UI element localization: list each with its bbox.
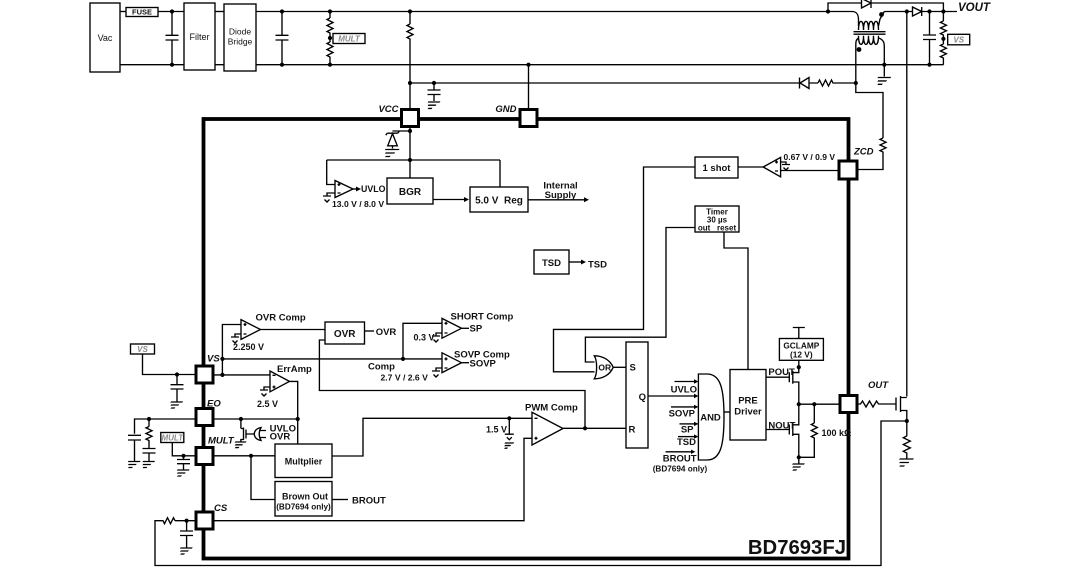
transformer T1 phase dot aux xyxy=(857,47,862,52)
node VCC cap top xyxy=(432,81,436,85)
pin EO xyxy=(196,409,213,426)
svg-text:BGR: BGR xyxy=(399,187,422,198)
node 100k tap xyxy=(812,402,816,406)
resistor divider lower (MULT sense) xyxy=(327,38,333,65)
svg-text:Supply: Supply xyxy=(545,190,577,201)
block Brown Out xyxy=(275,482,332,517)
wire regulator to internal supply arrow xyxy=(528,199,584,201)
svg-text:Brown Out: Brown Out xyxy=(282,492,328,502)
node NMOS source gnd xyxy=(797,455,801,459)
filter box xyxy=(184,3,215,70)
svg-text:POUT: POUT xyxy=(768,367,795,378)
svg-text:VCC: VCC xyxy=(378,104,398,115)
input SP-bar xyxy=(680,423,695,425)
wire MULT to brownout xyxy=(251,456,275,500)
svg-text:(BD7694 only): (BD7694 only) xyxy=(276,502,331,511)
node PMOS source xyxy=(797,365,801,369)
svg-text:2.250 V: 2.250 V xyxy=(233,342,264,352)
transformer T1 aux winding xyxy=(859,36,879,45)
svg-text:CS: CS xyxy=(214,503,228,514)
svg-text:VS: VS xyxy=(207,354,220,365)
wire FUSE to Filter (top rail) xyxy=(158,11,184,13)
diode bridge box xyxy=(224,4,256,71)
wire EO external xyxy=(135,419,197,434)
svg-text:13.0 V / 8.0 V: 13.0 V / 8.0 V xyxy=(332,199,384,209)
wire BROUT output tick xyxy=(332,499,348,501)
svg-text:OVR: OVR xyxy=(270,431,291,442)
wire GND pin riser xyxy=(528,65,530,109)
clamp 1.5V xyxy=(505,418,514,439)
transformer T1 aux left terminal xyxy=(856,38,859,83)
svg-text:0.3 V: 0.3 V xyxy=(414,333,435,343)
comparator SHORT Comp xyxy=(442,318,462,338)
transistor external NMOS xyxy=(896,396,907,421)
node X-cap bottom xyxy=(170,63,174,67)
comparator ZCD xyxy=(763,157,780,176)
reference 2.250V xyxy=(231,334,241,343)
svg-text:VOUT: VOUT xyxy=(958,2,991,14)
svg-text:BD7693FJ: BD7693FJ xyxy=(748,537,846,559)
resistor VS divider lower xyxy=(940,39,946,65)
VS net label box xyxy=(948,34,970,45)
block 5.0V Reg xyxy=(470,187,528,212)
svg-text:SHORT Comp: SHORT Comp xyxy=(451,311,514,322)
node snubber left on input rail xyxy=(826,9,830,13)
svg-text:TSD: TSD xyxy=(542,258,561,269)
VS external net label box xyxy=(131,344,155,354)
wire OVR output tick xyxy=(365,330,375,332)
svg-text:Driver: Driver xyxy=(734,407,762,418)
resistor EO comp R xyxy=(146,419,152,449)
node output cap top xyxy=(927,9,931,13)
MULT external net label box xyxy=(161,433,184,443)
transformer T1 phase dot primary xyxy=(879,12,884,17)
wire Filter to Diode Bridge bottom xyxy=(215,64,224,66)
wire VS comp line xyxy=(222,358,442,360)
node internal rail xyxy=(408,158,412,162)
ground EO cap xyxy=(124,462,140,468)
node drain rail xyxy=(905,9,909,13)
svg-text:1 shot: 1 shot xyxy=(703,163,732,174)
block Timer 30us xyxy=(695,206,739,232)
node MULT brownout tap xyxy=(249,454,253,458)
fuse F1 xyxy=(126,8,158,17)
svg-text:S: S xyxy=(630,363,636,374)
wire rail to UVLO comparator xyxy=(327,160,335,185)
transformer T1 primary left terminal xyxy=(852,12,859,27)
wire CS internal to PWM plus xyxy=(213,438,532,520)
ground zener xyxy=(381,150,399,157)
wire startup resistor to VCC pin xyxy=(409,83,411,109)
node MULT divider top xyxy=(328,9,332,13)
svg-text:100 kΩ: 100 kΩ xyxy=(822,428,852,438)
transformer T1 core xyxy=(854,32,886,35)
wire Q to AND gate xyxy=(648,395,694,397)
svg-text:AND: AND xyxy=(700,412,721,423)
wire VCC internal rail xyxy=(327,131,500,160)
wire OVR block to R xyxy=(319,340,585,428)
wire VS pin to ErrAmp xyxy=(213,374,270,376)
wire timer out to OR gate xyxy=(585,228,695,363)
transformer T1 primary winding xyxy=(859,21,879,30)
block BGR xyxy=(387,178,433,204)
capacitor MULT filter xyxy=(177,456,190,470)
ground NMOS source xyxy=(798,457,800,463)
ground EO pulldown xyxy=(232,442,246,448)
node EO pulldown tap xyxy=(239,417,243,421)
power symbol GCLAMP supply xyxy=(793,328,805,339)
block Multiplier xyxy=(275,444,332,478)
pin MULT xyxy=(196,448,213,465)
IC boundary BD7693FJ xyxy=(204,119,849,559)
ground VCC bypass xyxy=(424,102,440,108)
svg-text:Filter: Filter xyxy=(190,32,210,42)
capacitor X1 across line xyxy=(166,12,179,65)
svg-text:GND: GND xyxy=(495,104,516,115)
wire Vac to FUSE (top rail) xyxy=(120,11,126,13)
svg-text:VS: VS xyxy=(953,36,964,45)
svg-text:SP: SP xyxy=(681,424,694,435)
wire VS riser xyxy=(222,325,241,375)
pin ZCD xyxy=(839,161,857,179)
svg-text:TSD: TSD xyxy=(588,260,607,271)
svg-text:ErrAmp: ErrAmp xyxy=(277,364,312,375)
wire 1shot to OR gate xyxy=(554,167,696,372)
MULT net label box xyxy=(333,34,365,44)
node VS filter cap xyxy=(175,372,179,376)
svg-text:out reset: out reset xyxy=(698,223,737,232)
svg-text:PWM Comp: PWM Comp xyxy=(525,403,578,414)
node ErrAmp EO junction xyxy=(296,417,300,421)
svg-text:UVLO: UVLO xyxy=(671,384,697,395)
svg-text:Bridge: Bridge xyxy=(228,37,253,47)
ground VS filter xyxy=(167,402,183,408)
pin GND xyxy=(520,110,537,127)
svg-text:ZCD: ZCD xyxy=(853,146,874,157)
resistor CS sense filter xyxy=(155,421,907,566)
reference 0.3V xyxy=(432,333,442,342)
node zener jog xyxy=(408,129,412,133)
svg-text:MULT: MULT xyxy=(161,434,184,443)
diode snubber D1 xyxy=(862,0,872,8)
diode VCC aux rectifier D3 xyxy=(800,78,810,89)
gate OR xyxy=(594,356,613,379)
wire UVLO output arrow xyxy=(353,188,356,190)
comparator ErrAmp xyxy=(270,371,290,392)
reference 2.5V xyxy=(260,387,270,396)
node VCC feed resistor top xyxy=(408,9,412,13)
svg-text:EO: EO xyxy=(207,399,221,410)
node R wire OVR join xyxy=(583,426,587,430)
wire output diode span xyxy=(884,11,957,13)
wire MULT internal xyxy=(213,455,275,457)
transistor POUT PMOS xyxy=(766,367,799,404)
svg-text:SOVP: SOVP xyxy=(669,409,696,420)
node bulk cap bottom xyxy=(280,63,284,67)
reference 0.67V/0.9V xyxy=(781,162,790,170)
wire rail to BGR xyxy=(409,160,411,178)
svg-text:VS: VS xyxy=(137,345,148,354)
svg-text:Multplier: Multplier xyxy=(285,456,323,466)
node source sense xyxy=(905,419,909,423)
pin CS xyxy=(196,512,213,529)
svg-text:BROUT: BROUT xyxy=(663,453,697,464)
wire output node to OUT pin xyxy=(799,403,840,405)
wire rail to regulator xyxy=(499,160,501,187)
svg-text:SP: SP xyxy=(470,324,483,335)
wire DC bottom rail xyxy=(256,64,943,66)
ground CS filter xyxy=(177,548,193,554)
node EO comp junction xyxy=(147,417,151,421)
node aux return on rail xyxy=(882,63,886,67)
node output cap bottom xyxy=(927,63,931,67)
transformer T1 aux right terminal xyxy=(878,38,884,65)
input TSD-bar xyxy=(678,436,694,438)
wire ZCD pin to comparator xyxy=(781,170,839,172)
block TSD xyxy=(534,250,569,274)
svg-text:Q: Q xyxy=(639,392,646,403)
svg-text:0.67 V / 0.9 V: 0.67 V / 0.9 V xyxy=(784,152,836,162)
ground source sense xyxy=(895,459,913,466)
svg-text:OR: OR xyxy=(598,362,611,372)
capacitor EO comp C (series) xyxy=(143,449,156,462)
svg-text:5.0 V Reg: 5.0 V Reg xyxy=(475,195,523,206)
resistor OUT gate xyxy=(857,401,896,407)
transformer T1 primary right terminal xyxy=(879,12,885,27)
node VCC aux junction xyxy=(408,81,412,85)
input UVLO-bar xyxy=(675,381,695,383)
node SHORT branch xyxy=(401,357,405,361)
block PRE driver xyxy=(730,370,766,441)
gate UVLO/OVR or xyxy=(254,428,261,441)
ground EO series cap xyxy=(139,462,155,468)
diode output rectifier D2 xyxy=(913,7,922,16)
svg-text:OUT: OUT xyxy=(868,380,889,391)
wire snubber loop xyxy=(828,3,943,12)
wire Filter to Diode Bridge top xyxy=(215,11,224,13)
input SOVP-bar xyxy=(671,406,694,408)
reference 2.7V/2.6V xyxy=(432,368,442,377)
comparator OVR Comp xyxy=(241,320,261,340)
svg-text:TSD: TSD xyxy=(677,437,696,448)
node VS branch lower xyxy=(220,373,224,377)
gate AND xyxy=(698,374,724,460)
capacitor EO comp C (direct) xyxy=(128,435,141,461)
svg-text:(BD7694 only): (BD7694 only) xyxy=(653,465,708,474)
svg-text:1.5 V: 1.5 V xyxy=(486,425,507,435)
node MULT divider bottom xyxy=(328,63,332,67)
wire CS external xyxy=(175,520,196,522)
wire Multiplier output to PWM xyxy=(332,418,532,456)
block OVR xyxy=(325,322,365,344)
svg-text:(12 V): (12 V) xyxy=(790,350,813,360)
transistor NOUT NMOS xyxy=(766,404,799,457)
svg-text:OVR: OVR xyxy=(376,327,397,338)
wire OR to latch S xyxy=(613,366,626,368)
svg-text:UVLO: UVLO xyxy=(361,184,386,194)
wire VS external xyxy=(143,354,197,375)
node MULT filter cap xyxy=(181,454,185,458)
capacitor bulk C1 xyxy=(276,12,289,65)
wire PWM comp output to latch R xyxy=(563,427,626,429)
ground MULT filter xyxy=(173,470,189,476)
node VS comp branch xyxy=(220,357,224,361)
transistor EO pulldown switch xyxy=(241,419,246,442)
wire SP output tick xyxy=(462,327,470,329)
svg-text:MULT: MULT xyxy=(338,35,361,44)
block GCLAMP 12V xyxy=(779,339,823,361)
reference 13.0V/8.0V xyxy=(323,193,335,202)
svg-text:MULT: MULT xyxy=(208,436,235,447)
resistor VS divider upper xyxy=(940,12,946,39)
wire ErrAmp output to EO xyxy=(290,381,298,444)
zener diode VCC clamp xyxy=(386,131,400,148)
node bulk cap top xyxy=(280,9,284,13)
svg-text:Diode: Diode xyxy=(229,27,251,37)
resistor 100k xyxy=(799,404,818,457)
svg-text:Vac: Vac xyxy=(98,33,113,43)
svg-text:R: R xyxy=(629,425,636,436)
node GND rail tap xyxy=(526,63,530,67)
svg-text:2.5 V: 2.5 V xyxy=(257,399,278,409)
node X-cap top xyxy=(170,9,174,13)
wire AND to PRE driver xyxy=(724,411,730,413)
svg-text:OVR: OVR xyxy=(334,329,356,340)
svg-text:BROUT: BROUT xyxy=(352,496,386,507)
wire BGR to regulator arrow xyxy=(433,199,464,201)
svg-text:FUSE: FUSE xyxy=(132,8,152,17)
wire SHORT branch riser xyxy=(403,323,442,359)
svg-text:OVR Comp: OVR Comp xyxy=(256,312,306,323)
pin OUT xyxy=(840,396,857,413)
wire VCC aux rail xyxy=(410,82,800,84)
node VOUT xyxy=(941,9,945,13)
svg-text:SOVP: SOVP xyxy=(470,358,497,369)
wire TSD output arrow xyxy=(569,261,581,263)
input BROUT-bar xyxy=(666,451,692,453)
resistor ZCD sense xyxy=(858,138,887,170)
wire VCC pin to zener jog xyxy=(393,127,411,132)
resistor source sense xyxy=(903,421,910,459)
ground aux return xyxy=(883,65,885,77)
resistor VCC feed (startup) xyxy=(407,12,413,84)
pin VCC xyxy=(402,110,419,127)
node 1.5V clamp tap xyxy=(507,416,511,420)
svg-text:2.7 V / 2.6 V: 2.7 V / 2.6 V xyxy=(381,372,429,382)
block 1 shot xyxy=(695,157,738,178)
comparator SOVP Comp xyxy=(442,353,462,373)
capacitor VCC bypass xyxy=(428,83,441,101)
block SR latch xyxy=(626,342,648,448)
capacitor CS filter xyxy=(180,521,193,548)
wire EO internal xyxy=(213,418,298,420)
wire OVR comp to OVR block xyxy=(261,330,326,332)
comparator PWM Comp xyxy=(532,412,563,445)
node VS tap xyxy=(941,37,945,41)
Vac source box xyxy=(90,3,120,72)
wire GCLAMP to PMOS source xyxy=(798,360,800,370)
node aux winding left xyxy=(854,81,858,85)
wire ZCD comp to 1shot xyxy=(738,166,763,168)
wire MULT external xyxy=(172,443,196,456)
resistor VCC aux series xyxy=(809,80,856,86)
resistor divider upper (MULT sense) xyxy=(327,12,333,39)
wire ZCD sense jog xyxy=(856,83,883,138)
svg-text:Comp: Comp xyxy=(368,361,395,372)
pin VS xyxy=(196,366,213,383)
node output node xyxy=(797,402,801,406)
wire SOVP output tick xyxy=(462,362,470,364)
wire Vac to Filter (bottom rail) xyxy=(120,64,184,66)
wire drain vertical xyxy=(906,12,908,397)
svg-text:NOUT: NOUT xyxy=(768,421,795,432)
svg-text:PRE: PRE xyxy=(738,396,758,407)
node CS filter cap xyxy=(185,519,189,523)
wire DC top rail xyxy=(256,11,852,13)
capacitor VS filter xyxy=(171,375,184,402)
capacitor output C2 xyxy=(923,12,936,65)
comparator UVLO xyxy=(335,181,353,198)
node MULT divider tap xyxy=(328,36,332,40)
wire timer reset to PRE driver xyxy=(724,232,748,370)
